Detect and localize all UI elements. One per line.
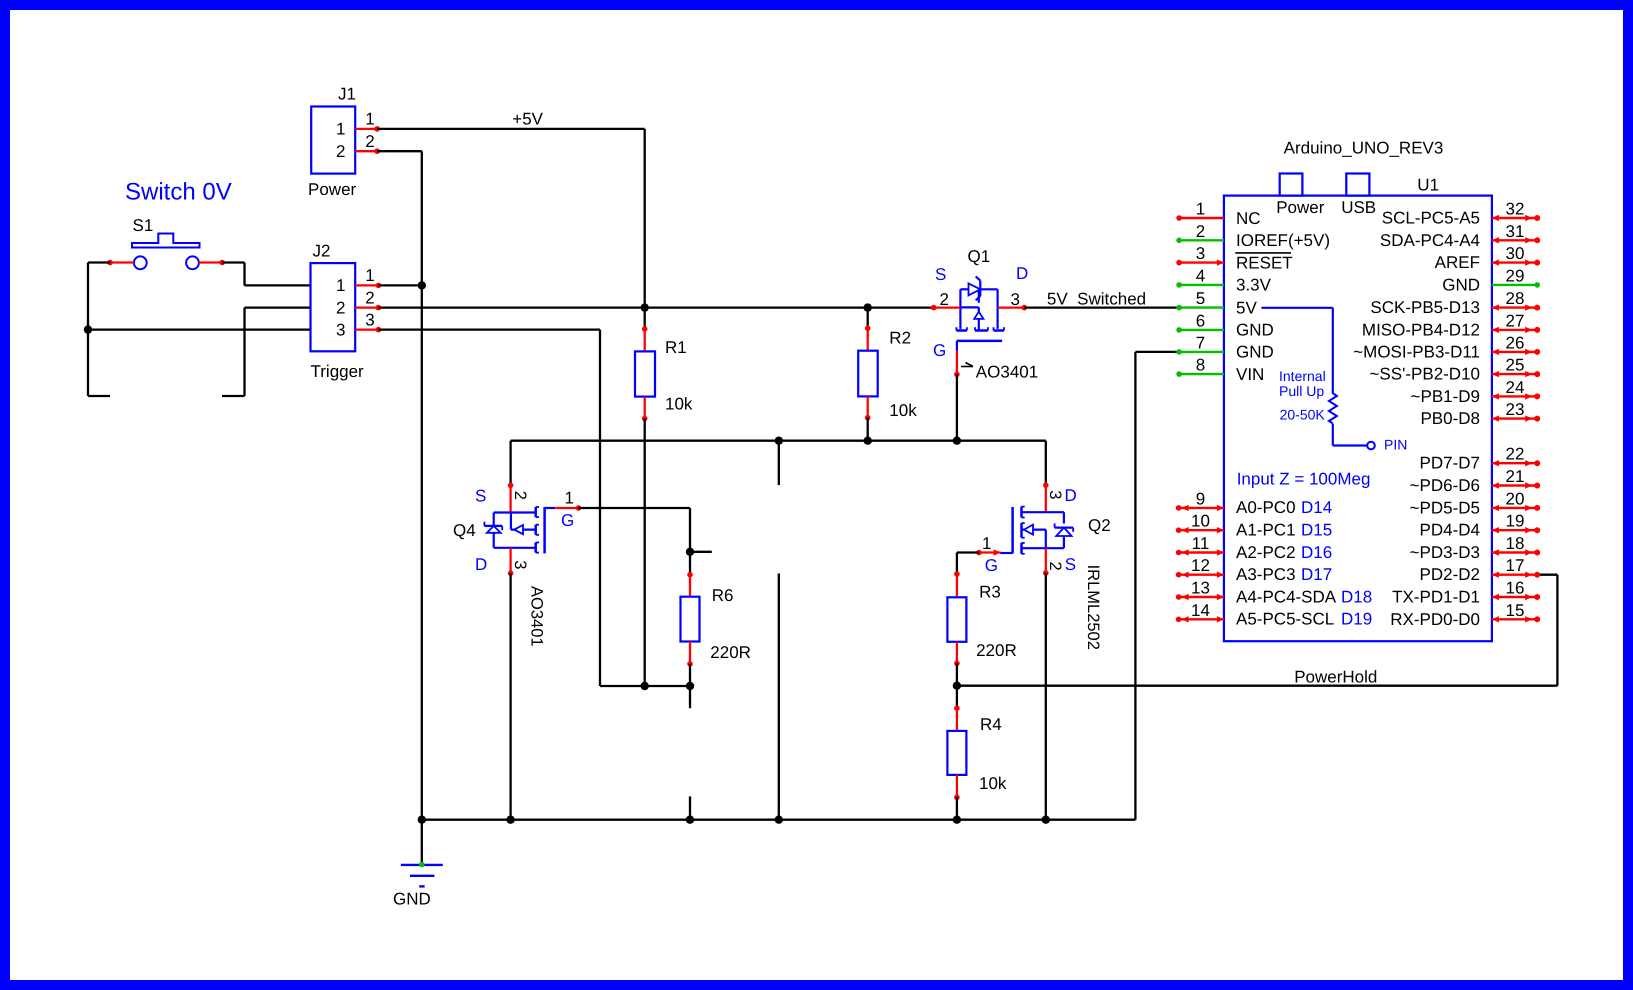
svg-text:10: 10 bbox=[1191, 512, 1210, 531]
Q1 designator arrow bbox=[961, 366, 973, 368]
svg-text:TX-PD1-D1: TX-PD1-D1 bbox=[1392, 588, 1480, 607]
svg-text:~PD5-D5: ~PD5-D5 bbox=[1410, 498, 1480, 517]
svg-text:A5-PC5-SCL: A5-PC5-SCL bbox=[1236, 610, 1334, 629]
svg-text:2: 2 bbox=[365, 288, 374, 307]
svg-text:+5V: +5V bbox=[512, 109, 543, 128]
junction R2 bottom bbox=[864, 437, 872, 445]
resistor R1 bbox=[644, 308, 646, 329]
wire switch left to corner bbox=[88, 261, 110, 263]
svg-text:AREF: AREF bbox=[1435, 253, 1480, 272]
wire mid rail bbox=[511, 440, 1046, 442]
switch S1 pin stub right bbox=[199, 261, 222, 263]
svg-text:J2: J2 bbox=[313, 242, 331, 261]
U1 pin 32 bbox=[1492, 217, 1538, 219]
svg-text:~PD6-D6: ~PD6-D6 bbox=[1410, 476, 1480, 495]
wire Q4 gate to R6 top bbox=[579, 507, 691, 509]
svg-text:A1-PC1: A1-PC1 bbox=[1236, 521, 1296, 540]
resistor R3 bbox=[956, 553, 958, 575]
svg-text:PD4-D4: PD4-D4 bbox=[1420, 521, 1480, 540]
svg-text:D: D bbox=[1016, 264, 1028, 283]
svg-text:PB0-D8: PB0-D8 bbox=[1420, 409, 1480, 428]
svg-text:18: 18 bbox=[1506, 534, 1525, 553]
svg-text:3.3V: 3.3V bbox=[1236, 276, 1272, 295]
svg-text:D15: D15 bbox=[1301, 521, 1332, 540]
svg-text:17: 17 bbox=[1506, 556, 1525, 575]
junction broken stub GND bbox=[775, 816, 783, 824]
svg-text:IRLML2502: IRLML2502 bbox=[1084, 565, 1102, 650]
junction Q1 gate bbox=[953, 437, 961, 445]
wire J2 pin3 to corner bbox=[378, 328, 600, 330]
wire J2 pin3 down bbox=[599, 330, 601, 686]
svg-text:6: 6 bbox=[1196, 311, 1205, 330]
wire left bottom stub bbox=[88, 395, 110, 397]
svg-text:PD2-D2: PD2-D2 bbox=[1420, 565, 1480, 584]
U1 pin 1 bbox=[1178, 217, 1224, 219]
svg-text:A4-PC4-SDA: A4-PC4-SDA bbox=[1236, 587, 1337, 606]
switch S1 pin stub left bbox=[110, 261, 134, 263]
wire broken stub above GND rail bbox=[778, 574, 780, 820]
svg-text:Q1: Q1 bbox=[968, 247, 991, 266]
U1 pin 8 bbox=[1178, 373, 1224, 375]
U1 pin 2 bbox=[1178, 239, 1224, 241]
transistor Q2 bbox=[1001, 507, 1074, 554]
transistor Q1 bbox=[956, 276, 1004, 351]
svg-text:21: 21 bbox=[1506, 467, 1525, 486]
svg-text:14: 14 bbox=[1191, 601, 1210, 620]
svg-text:7: 7 bbox=[1196, 333, 1205, 352]
Q2 drain pin 3 bbox=[1043, 482, 1049, 488]
svg-text:31: 31 bbox=[1506, 222, 1525, 241]
svg-text:GND: GND bbox=[1236, 343, 1274, 362]
svg-text:22: 22 bbox=[1506, 445, 1525, 464]
wire Q2 source to GND rail bbox=[1045, 573, 1047, 820]
U1 pin 6 bbox=[1178, 329, 1224, 331]
U1 pin 17 bbox=[1492, 574, 1538, 576]
svg-text:5: 5 bbox=[1196, 289, 1205, 308]
svg-text:1: 1 bbox=[336, 276, 345, 295]
svg-text:NC: NC bbox=[1236, 209, 1261, 228]
svg-text:AO3401: AO3401 bbox=[528, 586, 546, 647]
svg-text:3: 3 bbox=[1011, 290, 1020, 309]
wire mid rail down to Q4 source bbox=[509, 441, 511, 486]
svg-text:IOREF(+5V): IOREF(+5V) bbox=[1236, 231, 1330, 250]
svg-text:10k: 10k bbox=[665, 395, 693, 414]
U1 internal pull-up resistor 20-50K bbox=[1329, 393, 1337, 423]
svg-text:3: 3 bbox=[336, 320, 345, 339]
Q2 gate pin 1 bbox=[979, 551, 1001, 553]
U1 pin 4 bbox=[1178, 284, 1224, 286]
wire R1 bottom to trigger node bbox=[644, 419, 646, 687]
U1 pin 19 bbox=[1492, 529, 1538, 531]
resistor R4 bbox=[956, 686, 958, 709]
Q2 source pin 2 bbox=[1045, 548, 1047, 573]
svg-text:MISO-PB4-D12: MISO-PB4-D12 bbox=[1362, 320, 1480, 339]
svg-text:SDA-PC4-A4: SDA-PC4-A4 bbox=[1380, 231, 1480, 250]
svg-text:Q4: Q4 bbox=[453, 521, 476, 540]
wire J2 pin3 row left segment bbox=[88, 328, 311, 330]
svg-text:G: G bbox=[933, 341, 946, 360]
svg-text:D14: D14 bbox=[1301, 498, 1332, 517]
junction Q2 source GND bbox=[1042, 816, 1050, 824]
svg-text:RX-PD0-D0: RX-PD0-D0 bbox=[1390, 610, 1480, 629]
wire R6 bottom to trigger node bbox=[689, 664, 691, 686]
svg-text:AO3401: AO3401 bbox=[976, 363, 1038, 382]
Q4 drain pin 3 bbox=[509, 548, 511, 573]
U1 pin 11 bbox=[1178, 551, 1224, 553]
switch S1 contact left bbox=[134, 256, 147, 269]
wire J1 pin2 vertical to GND rail bbox=[421, 151, 423, 820]
U1 pin 13 bbox=[1178, 596, 1224, 598]
svg-text:A3-PC3: A3-PC3 bbox=[1236, 565, 1296, 584]
svg-text:Switch 0V: Switch 0V bbox=[125, 179, 232, 206]
U1 pin 30 bbox=[1492, 261, 1538, 263]
connector J2 bbox=[311, 263, 356, 351]
junction mid rail broken stub bbox=[775, 437, 783, 445]
J2 pin 1 bbox=[355, 284, 378, 286]
svg-text:2: 2 bbox=[1196, 222, 1205, 241]
U1 Power tab bbox=[1280, 174, 1303, 196]
U1 pin 7 bbox=[1178, 351, 1224, 353]
U1 pin 27 bbox=[1492, 329, 1538, 331]
junction R1 top bbox=[641, 303, 649, 311]
wire PowerHold up to pin 17 bbox=[1556, 575, 1558, 686]
svg-text:J1: J1 bbox=[338, 85, 356, 104]
wire GND rail bbox=[422, 819, 1136, 821]
svg-text:Power: Power bbox=[1276, 198, 1325, 217]
svg-text:30: 30 bbox=[1506, 244, 1525, 263]
svg-text:GND: GND bbox=[1236, 321, 1274, 340]
junction R1 bottom bbox=[641, 682, 649, 690]
wire main rail J2 pin2 to Q1 source bbox=[378, 306, 933, 308]
wire J1 pin2 to corner bbox=[377, 150, 422, 152]
Q1 drain pin 3 bbox=[998, 306, 1025, 308]
svg-text:Input Z = 100Meg: Input Z = 100Meg bbox=[1237, 470, 1371, 489]
U1 pin 25 bbox=[1492, 373, 1538, 375]
svg-text:29: 29 bbox=[1506, 266, 1525, 285]
U1 pin 31 bbox=[1492, 239, 1538, 241]
U1 pin 10 bbox=[1178, 529, 1224, 531]
svg-text:3: 3 bbox=[365, 310, 374, 329]
junction R6 top bbox=[686, 548, 694, 556]
svg-text:2: 2 bbox=[1046, 562, 1064, 571]
wire broken stub below mid rail bbox=[778, 441, 780, 485]
svg-text:D17: D17 bbox=[1301, 565, 1332, 584]
svg-text:S1: S1 bbox=[133, 216, 154, 235]
svg-text:~MOSI-PB3-D11: ~MOSI-PB3-D11 bbox=[1353, 342, 1480, 361]
wire Q1 gate down to mid rail bbox=[956, 374, 958, 440]
junction left vertical and J2 pin3 wire bbox=[84, 325, 92, 333]
U1 pin 24 bbox=[1492, 395, 1538, 397]
open stub below trigger node bbox=[689, 686, 691, 708]
wire corner down to J2 pin1 row bbox=[243, 263, 245, 286]
svg-text:220R: 220R bbox=[710, 643, 751, 662]
svg-text:23: 23 bbox=[1506, 400, 1525, 419]
U1 pin 20 bbox=[1492, 507, 1538, 509]
svg-text:2: 2 bbox=[511, 491, 529, 500]
svg-text:12: 12 bbox=[1191, 556, 1210, 575]
svg-text:D19: D19 bbox=[1341, 610, 1372, 629]
U1 pin 12 bbox=[1178, 574, 1224, 576]
svg-text:D: D bbox=[475, 555, 487, 574]
svg-text:R3: R3 bbox=[979, 583, 1001, 602]
svg-text:10k: 10k bbox=[979, 774, 1007, 793]
svg-text:220R: 220R bbox=[976, 641, 1017, 660]
wire +5V from J1 pin1 bbox=[377, 128, 645, 130]
U1 pin 23 bbox=[1492, 417, 1538, 419]
U1 pin 15 bbox=[1492, 618, 1538, 620]
junction R6 bottom bbox=[686, 682, 694, 690]
svg-text:28: 28 bbox=[1506, 289, 1525, 308]
svg-text:G: G bbox=[985, 556, 998, 575]
U1 pin 21 bbox=[1492, 484, 1538, 486]
open stub above GND rail at R6 column bbox=[689, 796, 691, 819]
svg-text:R1: R1 bbox=[665, 338, 687, 357]
U1 pin 18 bbox=[1492, 551, 1538, 553]
wire PowerHold horizontal bbox=[957, 685, 1558, 687]
svg-text:S: S bbox=[1065, 555, 1076, 574]
wire +5V down to R1 junction bbox=[644, 129, 646, 308]
svg-text:25: 25 bbox=[1506, 356, 1525, 375]
svg-text:32: 32 bbox=[1506, 200, 1525, 219]
wire to J2 pin1 left side bbox=[245, 284, 312, 286]
wire left vertical bbox=[87, 263, 89, 397]
svg-text:A2-PC2: A2-PC2 bbox=[1236, 543, 1296, 562]
svg-text:8: 8 bbox=[1196, 356, 1205, 375]
transistor Q4 bbox=[484, 507, 555, 553]
svg-text:Internal: Internal bbox=[1279, 368, 1326, 384]
svg-text:Power: Power bbox=[308, 180, 357, 199]
open stub right of R6 top bbox=[690, 551, 712, 553]
svg-text:A0-PC0: A0-PC0 bbox=[1236, 498, 1296, 517]
svg-text:1: 1 bbox=[982, 534, 991, 553]
junction R4 bottom GND bbox=[953, 816, 961, 824]
connector J1 bbox=[311, 107, 355, 174]
wire J2 pin1 to vertical bbox=[378, 284, 421, 286]
svg-text:20-50K: 20-50K bbox=[1280, 407, 1326, 423]
wire Q2 gate to R3 bbox=[957, 551, 979, 553]
junction J2 pin1 bbox=[418, 281, 426, 289]
svg-text:VIN: VIN bbox=[1236, 365, 1264, 384]
J1 pin 2 bbox=[355, 150, 377, 152]
svg-text:3: 3 bbox=[1046, 490, 1064, 499]
Q4 source pin 2 bbox=[508, 483, 514, 489]
svg-text:Pull Up: Pull Up bbox=[1279, 383, 1324, 399]
wire R2 bottom to mid rail bbox=[867, 418, 869, 441]
junction R2 top bbox=[864, 303, 872, 311]
U1 pin 9 bbox=[1178, 507, 1224, 509]
wire GND rail riser to Arduino pin 7 bbox=[1134, 352, 1136, 820]
junction R3 R4 PowerHold bbox=[953, 682, 961, 690]
wire R3 bottom to PowerHold junction bbox=[956, 663, 958, 685]
wire 5V_Switched to Arduino 5V pin bbox=[1024, 306, 1176, 308]
Q4 gate pin 1 bbox=[555, 507, 578, 509]
svg-text:Q2: Q2 bbox=[1088, 516, 1111, 535]
svg-text:U1: U1 bbox=[1417, 176, 1439, 195]
svg-text:RESET: RESET bbox=[1236, 253, 1293, 272]
U1 pin 22 bbox=[1492, 462, 1538, 464]
IC U1 Arduino_UNO_REV3 body bbox=[1224, 196, 1492, 642]
svg-text:1: 1 bbox=[365, 266, 374, 285]
U1 pin 5 bbox=[1178, 306, 1224, 308]
svg-text:2: 2 bbox=[336, 298, 345, 317]
svg-text:11: 11 bbox=[1192, 534, 1210, 553]
U1 USB tab bbox=[1346, 174, 1369, 196]
svg-text:Arduino_UNO_REV3: Arduino_UNO_REV3 bbox=[1284, 139, 1444, 158]
wire trigger node horizontal bbox=[600, 685, 690, 687]
svg-text:~PB1-D9: ~PB1-D9 bbox=[1411, 387, 1480, 406]
svg-text:1: 1 bbox=[336, 120, 345, 139]
svg-text:GND: GND bbox=[393, 890, 431, 909]
svg-text:1: 1 bbox=[365, 110, 374, 129]
svg-text:10k: 10k bbox=[889, 401, 917, 420]
svg-text:PowerHold: PowerHold bbox=[1294, 668, 1377, 687]
U1 pin 28 bbox=[1492, 306, 1538, 308]
J2 pin 2 bbox=[355, 306, 378, 308]
svg-text:26: 26 bbox=[1506, 333, 1525, 352]
U1 pin 16 bbox=[1492, 596, 1538, 598]
svg-text:R6: R6 bbox=[712, 586, 734, 605]
wire Q4 drain to GND rail bbox=[509, 573, 511, 820]
svg-text:USB: USB bbox=[1341, 198, 1376, 217]
wire switch right to corner bbox=[222, 261, 244, 263]
U1 pin 14 bbox=[1178, 618, 1224, 620]
wire J2 pin2 left side bbox=[245, 306, 312, 308]
svg-text:SCL-PC5-A5: SCL-PC5-A5 bbox=[1382, 209, 1480, 228]
junction R6 column GND bbox=[686, 816, 694, 824]
U1 pin 26 bbox=[1492, 351, 1538, 353]
svg-text:R4: R4 bbox=[980, 715, 1002, 734]
U1 pin 29 bbox=[1492, 284, 1538, 286]
J2 pin 3 bbox=[355, 328, 378, 330]
J1 pin 1 bbox=[355, 128, 377, 130]
svg-text:SCK-PB5-D13: SCK-PB5-D13 bbox=[1370, 298, 1480, 317]
svg-text:15: 15 bbox=[1506, 601, 1525, 620]
Q1 source pin 2 bbox=[934, 306, 961, 308]
U1 internal pull-up wire bbox=[1261, 307, 1332, 309]
svg-text:2: 2 bbox=[940, 290, 949, 309]
svg-text:S: S bbox=[935, 265, 946, 284]
svg-text:13: 13 bbox=[1191, 579, 1210, 598]
U1 pin 3 bbox=[1178, 261, 1224, 263]
U1 PIN terminal circle bbox=[1367, 442, 1375, 450]
svg-text:PIN: PIN bbox=[1384, 437, 1407, 453]
wire R4 bottom to GND rail bbox=[956, 797, 958, 819]
ground bbox=[421, 820, 423, 865]
svg-text:5V: 5V bbox=[1236, 298, 1257, 317]
svg-text:D: D bbox=[1065, 486, 1077, 505]
resistor R2 bbox=[867, 308, 869, 329]
switch S1 actuator bbox=[132, 234, 200, 248]
svg-text:5V_Switched: 5V_Switched bbox=[1047, 290, 1146, 309]
svg-text:1: 1 bbox=[565, 489, 574, 508]
svg-text:Trigger: Trigger bbox=[311, 362, 365, 381]
svg-text:19: 19 bbox=[1506, 512, 1525, 531]
Q1 gate pin 1 bbox=[956, 351, 958, 374]
svg-text:PD7-D7: PD7-D7 bbox=[1420, 454, 1480, 473]
svg-text:~PD3-D3: ~PD3-D3 bbox=[1410, 543, 1480, 562]
svg-text:3: 3 bbox=[511, 560, 529, 569]
junction GND symbol bbox=[418, 816, 426, 824]
svg-text:R2: R2 bbox=[889, 329, 911, 348]
switch S1 contact right bbox=[186, 256, 199, 269]
svg-text:1: 1 bbox=[1196, 200, 1205, 219]
wire right bottom stub bbox=[222, 395, 245, 397]
svg-text:D16: D16 bbox=[1301, 543, 1332, 562]
wire mid rail down to Q2 drain bbox=[1045, 441, 1047, 486]
svg-text:20: 20 bbox=[1506, 489, 1525, 508]
svg-text:4: 4 bbox=[1196, 266, 1205, 285]
svg-text:16: 16 bbox=[1506, 579, 1525, 598]
svg-text:S: S bbox=[475, 487, 486, 506]
svg-text:G: G bbox=[561, 511, 574, 530]
svg-text:GND: GND bbox=[1442, 275, 1480, 294]
svg-text:24: 24 bbox=[1506, 378, 1525, 397]
svg-text:27: 27 bbox=[1506, 311, 1525, 330]
svg-text:D18: D18 bbox=[1341, 587, 1372, 606]
junction Q4 drain GND bbox=[506, 816, 514, 824]
svg-text:~SS'-PB2-D10: ~SS'-PB2-D10 bbox=[1370, 365, 1481, 384]
svg-text:9: 9 bbox=[1196, 489, 1205, 508]
svg-text:2: 2 bbox=[336, 142, 345, 161]
wire J2 pin2 down to bracket bbox=[243, 308, 245, 396]
svg-text:2: 2 bbox=[365, 132, 374, 151]
resistor R6 bbox=[689, 552, 691, 575]
svg-text:3: 3 bbox=[1196, 244, 1205, 263]
